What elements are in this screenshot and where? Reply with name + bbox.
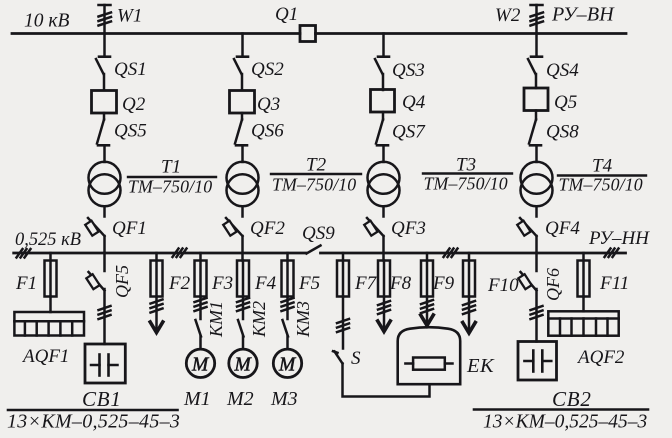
svg-text:Q4: Q4 bbox=[402, 92, 426, 113]
svg-text:S: S bbox=[351, 348, 361, 369]
label T2 / TM-750/10 bbox=[271, 155, 361, 195]
svg-text:КМ3: КМ3 bbox=[293, 301, 313, 338]
svg-text:F2: F2 bbox=[168, 273, 191, 294]
contactor KM2 bbox=[237, 261, 249, 337]
motor M2 bbox=[229, 349, 257, 377]
wire QF6 to CB2 with hatch bbox=[531, 289, 543, 342]
wire bus to QS3 bbox=[382, 34, 385, 56]
svg-text:QS5: QS5 bbox=[114, 121, 147, 142]
wire bus to QS4 bbox=[535, 34, 538, 56]
svg-text:Q3: Q3 bbox=[257, 94, 280, 115]
svg-text:Q2: Q2 bbox=[122, 94, 146, 115]
svg-text:РУ–ВН: РУ–ВН bbox=[551, 4, 615, 26]
wire QS6 to T2 bbox=[241, 145, 244, 162]
svg-text:F8: F8 bbox=[389, 273, 412, 294]
svg-text:ТМ–750/10: ТМ–750/10 bbox=[559, 175, 643, 195]
svg-text:13×КМ–0,525–45–3: 13×КМ–0,525–45–3 bbox=[7, 411, 180, 433]
wire bus to QF6 bbox=[535, 253, 538, 271]
label T3 / TM-750/10 bbox=[423, 155, 512, 194]
transformer T2 bbox=[227, 162, 259, 207]
fuse F7 bbox=[337, 253, 349, 297]
disconnector QS3 bbox=[375, 57, 389, 74]
svg-text:QS7: QS7 bbox=[392, 122, 426, 143]
wire F1 to AQF1 bbox=[49, 297, 52, 313]
label 13xKM line right bbox=[474, 408, 648, 411]
wire KM2 to M2 bbox=[242, 337, 245, 350]
wire KM3 to M3 bbox=[286, 337, 289, 350]
breaker QF1 bbox=[85, 218, 104, 236]
svg-text:КМ2: КМ2 bbox=[249, 301, 269, 338]
wire QS7 to T3 bbox=[382, 145, 385, 162]
wire T2 to QF2 bbox=[241, 206, 244, 216]
fuse F4 bbox=[237, 261, 249, 297]
svg-text:AQF2: AQF2 bbox=[576, 347, 625, 368]
label 13xKM line left bbox=[8, 409, 178, 412]
wire F11 to AQF2 bbox=[582, 297, 585, 312]
wire QS5 to T1 bbox=[103, 145, 106, 162]
wire KM1 to M1 bbox=[199, 337, 202, 350]
breaker QF5 bbox=[86, 272, 104, 291]
svg-text:Т4: Т4 bbox=[592, 156, 613, 177]
motor M1 bbox=[186, 349, 214, 377]
switch S bbox=[333, 297, 349, 364]
svg-text:М3: М3 bbox=[270, 388, 298, 410]
wire lower bus left segment bbox=[14, 249, 306, 258]
wire QS3 to Q4 bbox=[382, 74, 385, 90]
svg-text:F4: F4 bbox=[254, 273, 277, 294]
wire QS1 to Q2 bbox=[103, 74, 106, 90]
breaker Q4 bbox=[371, 90, 395, 113]
svg-text:М: М bbox=[278, 355, 297, 376]
wire bus to QS2 bbox=[241, 34, 244, 56]
svg-text:Q1: Q1 bbox=[275, 4, 298, 25]
svg-text:QS1: QS1 bbox=[114, 59, 147, 80]
wire bus to QF5 bbox=[103, 253, 106, 271]
svg-text:QF5: QF5 bbox=[112, 265, 132, 298]
wire T1 to QF1 bbox=[103, 206, 106, 216]
svg-text:QF6: QF6 bbox=[543, 268, 563, 301]
breaker QF2 bbox=[223, 218, 242, 236]
panel AQF2 bbox=[548, 311, 618, 335]
arrow feeder F2 bbox=[150, 297, 163, 333]
disconnector QS7 bbox=[376, 112, 388, 145]
svg-text:QS8: QS8 bbox=[546, 122, 579, 143]
breaker QF4 bbox=[517, 218, 536, 236]
wire S to EK bbox=[343, 364, 430, 397]
capacitor bank CB1 bbox=[85, 344, 125, 383]
wire top bus right segment bbox=[316, 32, 627, 35]
contactor KM1 bbox=[195, 297, 207, 337]
arrow feeder F10 bbox=[463, 297, 476, 334]
contactor KM3 bbox=[282, 297, 294, 337]
breaker Q3 bbox=[230, 91, 255, 114]
fuse F10 bbox=[463, 253, 475, 297]
svg-text:F1: F1 bbox=[15, 273, 37, 294]
wire T4 to QF4 bbox=[535, 206, 538, 216]
svg-text:КМ1: КМ1 bbox=[206, 301, 226, 338]
fuse F1 bbox=[45, 253, 57, 297]
wire lower bus right segment bbox=[321, 249, 626, 258]
disconnector QS2 bbox=[234, 57, 248, 74]
svg-text:F5: F5 bbox=[298, 273, 320, 294]
line W2 bbox=[531, 5, 544, 34]
svg-text:ЕК: ЕК bbox=[466, 355, 495, 377]
svg-text:F9: F9 bbox=[432, 273, 455, 294]
svg-text:QS6: QS6 bbox=[251, 121, 284, 142]
wire QS8 to T4 bbox=[535, 145, 538, 162]
svg-text:QS2: QS2 bbox=[251, 59, 284, 80]
disconnector QS1 bbox=[96, 57, 110, 74]
wire T3 to QF3 bbox=[382, 206, 385, 216]
wire bus to QS1 bbox=[103, 34, 106, 56]
motor M3 bbox=[273, 349, 301, 377]
svg-text:ТМ–750/10: ТМ–750/10 bbox=[424, 174, 508, 194]
fuse F2 bbox=[151, 253, 163, 297]
svg-text:СВ2: СВ2 bbox=[552, 387, 592, 411]
svg-text:М2: М2 bbox=[226, 388, 254, 410]
svg-text:СВ1: СВ1 bbox=[82, 387, 122, 411]
svg-text:М: М bbox=[191, 355, 210, 376]
wire QF4 to bus bbox=[535, 236, 538, 253]
transformer T3 bbox=[368, 162, 400, 207]
svg-text:QF4: QF4 bbox=[545, 218, 580, 239]
wire QS2 to Q3 bbox=[241, 74, 244, 90]
disconnector QS6 bbox=[235, 113, 247, 145]
svg-text:М1: М1 bbox=[183, 388, 211, 410]
arrow feeder F8 bbox=[378, 261, 391, 332]
breaker QF6 bbox=[518, 272, 536, 291]
wire QF5 to CB1 with hatch bbox=[99, 289, 111, 344]
transformer T4 bbox=[521, 162, 553, 207]
svg-text:Т1: Т1 bbox=[161, 157, 181, 178]
svg-text:F11: F11 bbox=[599, 273, 629, 294]
arrow feeder F9 bbox=[421, 297, 434, 326]
fuse F3 bbox=[195, 253, 207, 297]
svg-text:QS4: QS4 bbox=[546, 60, 579, 81]
wire QF3 through bus to F8 bbox=[382, 236, 385, 261]
disconnector QS5 bbox=[97, 113, 109, 145]
line W1 bbox=[99, 5, 112, 34]
wire top bus left segment bbox=[12, 32, 300, 35]
capacitor bank CB2 bbox=[518, 342, 557, 381]
svg-text:РУ–НН: РУ–НН bbox=[588, 228, 650, 249]
breaker Q1 bbox=[300, 26, 316, 42]
breaker QF3 bbox=[364, 218, 383, 236]
fuse F5 bbox=[282, 253, 294, 297]
svg-text:QS9: QS9 bbox=[302, 223, 335, 244]
svg-text:Q5: Q5 bbox=[554, 92, 577, 113]
svg-text:М: М bbox=[234, 355, 253, 376]
label T1 / TM-750/10 bbox=[128, 157, 216, 197]
svg-text:AQF1: AQF1 bbox=[21, 346, 69, 367]
wire QF1 to bus bbox=[103, 236, 106, 253]
disconnector QS8 bbox=[529, 111, 541, 146]
svg-text:W1: W1 bbox=[117, 6, 142, 27]
panel AQF1 bbox=[14, 312, 84, 336]
wire QS4 to Q5 bbox=[535, 74, 538, 88]
breaker Q2 bbox=[92, 91, 117, 114]
wire QF2 through bus to F4 bbox=[241, 236, 244, 261]
svg-text:F3: F3 bbox=[211, 273, 233, 294]
breaker Q5 bbox=[524, 88, 548, 111]
fuse F11 bbox=[578, 253, 590, 297]
svg-text:F10: F10 bbox=[487, 275, 519, 296]
svg-text:Т2: Т2 bbox=[306, 155, 327, 176]
svg-text:ТМ–750/10: ТМ–750/10 bbox=[272, 175, 356, 195]
label T4 / TM-750/10 bbox=[558, 156, 646, 195]
svg-text:QF1: QF1 bbox=[112, 218, 147, 239]
svg-text:QF3: QF3 bbox=[391, 218, 426, 239]
svg-text:13×КМ–0,525–45–3: 13×КМ–0,525–45–3 bbox=[483, 412, 647, 433]
svg-text:ТМ–750/10: ТМ–750/10 bbox=[128, 177, 212, 197]
svg-text:QS3: QS3 bbox=[392, 60, 425, 81]
transformer T1 bbox=[89, 162, 121, 207]
svg-text:F7: F7 bbox=[354, 273, 378, 294]
disconnector QS4 bbox=[528, 57, 542, 74]
svg-text:W2: W2 bbox=[495, 5, 521, 26]
heater EK bbox=[398, 327, 461, 384]
svg-text:QF2: QF2 bbox=[250, 218, 285, 239]
fuse F8 bbox=[378, 261, 390, 297]
svg-text:0,525 кВ: 0,525 кВ bbox=[15, 229, 81, 250]
svg-text:10 кВ: 10 кВ bbox=[24, 11, 69, 32]
disconnector QS9 bbox=[307, 246, 321, 254]
fuse F9 bbox=[421, 253, 433, 297]
